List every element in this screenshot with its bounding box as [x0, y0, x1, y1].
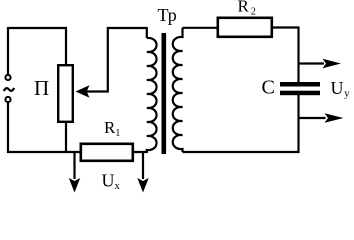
resistor R2 body: [218, 18, 272, 37]
wire: capacitor bottom down and bottom rail to secondary bottom: [183, 95, 299, 152]
svg-text:R1: R1: [104, 118, 120, 139]
wiper arrowhead: [76, 85, 90, 97]
capacitor C bottom plate: [280, 91, 320, 96]
AC source top terminal: [5, 75, 10, 80]
Uy top right arrow: [298, 62, 325, 64]
Ux left down arrow: [73, 151, 75, 179]
resistor R1 body: [81, 144, 133, 161]
transformer secondary winding: [173, 28, 183, 152]
svg-text:П: П: [34, 76, 49, 100]
wire: secondary top to R2: [183, 27, 217, 29]
svg-text:Uy: Uy: [331, 78, 351, 100]
svg-text:Тр: Тр: [158, 5, 177, 25]
AC source sine symbol: [4, 88, 14, 91]
wire: potentiometer bottom lead: [65, 123, 67, 152]
potentiometer P body: [58, 65, 73, 122]
svg-text:R2: R2: [238, 0, 256, 18]
wire: R2 right to right branch down to capacitor: [273, 28, 299, 83]
wire: source bottom down and bottom rail to R1 left: [8, 103, 81, 153]
transformer core: [162, 33, 167, 154]
wire: wiper branch to transformer primary top: [87, 28, 147, 92]
transformer primary winding: [147, 38, 157, 152]
capacitor C top plate: [280, 82, 320, 87]
Uy bottom right arrow: [298, 117, 326, 119]
svg-text:Ux: Ux: [102, 171, 121, 193]
wire: left circuit top rail (source top to potentiometer top): [8, 28, 66, 75]
AC source bottom terminal: [5, 97, 10, 102]
svg-text:C: C: [262, 76, 275, 98]
wire: R1 right to primary bottom: [134, 150, 147, 152]
Ux right down arrow: [142, 151, 144, 179]
